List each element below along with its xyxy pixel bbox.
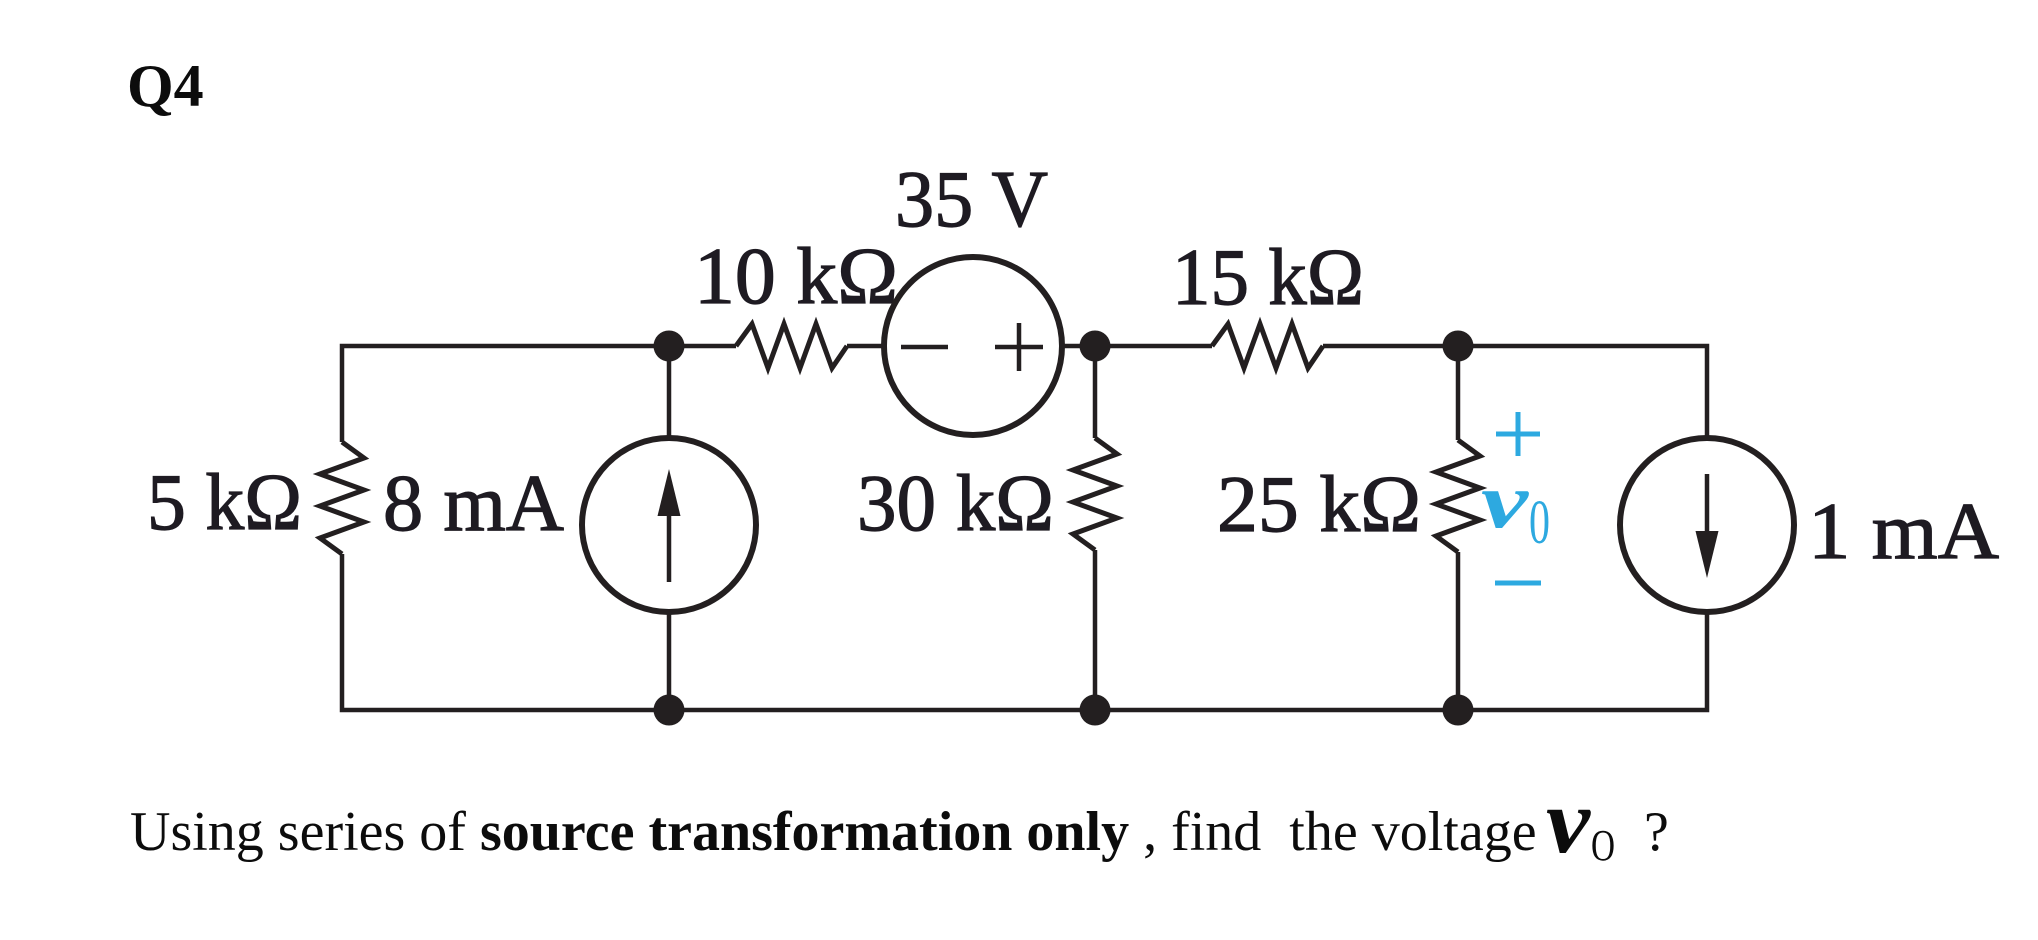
- svg-text:O: O: [1591, 821, 1615, 870]
- resistor R2 15 kOhm: [1212, 324, 1323, 368]
- wire V1 to R2: [1062, 344, 1212, 349]
- svg-text:0: 0: [1529, 489, 1550, 557]
- I1 arrow up: [667, 510, 672, 582]
- svg-text:Using series of source transfo: Using series of source transformation on…: [130, 801, 1537, 863]
- svg-text:10 kΩ: 10 kΩ: [694, 233, 898, 321]
- svg-text:25 kΩ: 25 kΩ: [1217, 461, 1421, 549]
- wire R5 to bottom: [1456, 552, 1461, 710]
- node E bottom-middle junction dot: [1080, 695, 1111, 726]
- wire node A down to I1: [667, 346, 672, 438]
- wire R4 to bottom: [1093, 550, 1098, 710]
- svg-text:15 kΩ: 15 kΩ: [1172, 234, 1364, 322]
- resistor R3 5 kOhm: [320, 442, 364, 554]
- current source I2 1 mA circle: [1620, 438, 1794, 612]
- node F bottom-right junction dot: [1443, 695, 1474, 726]
- resistor R5 25 kOhm: [1436, 440, 1480, 552]
- svg-text:v: v: [1481, 457, 1530, 544]
- resistor R1 10 kOhm: [736, 324, 847, 368]
- current source I1 8 mA circle: [582, 438, 756, 612]
- label v0 plus sign (cyan): [1496, 412, 1540, 456]
- svg-text:30 kΩ: 30 kΩ: [857, 460, 1054, 548]
- label v0 minus sign (cyan): [1495, 581, 1541, 586]
- voltage source V1 35 V circle: [884, 257, 1062, 435]
- I2 arrow down: [1705, 474, 1710, 538]
- node A top-left junction dot: [654, 331, 685, 362]
- svg-text:1 mA: 1 mA: [1808, 488, 1999, 576]
- node D bottom-left junction dot: [654, 695, 685, 726]
- node C top-right junction dot: [1443, 331, 1474, 362]
- svg-text:v: v: [1546, 770, 1591, 872]
- svg-text:5 kΩ: 5 kΩ: [147, 459, 302, 547]
- wire I1 to bottom: [667, 612, 672, 710]
- wire R1 to V1: [847, 344, 884, 349]
- V1 plus sign: [995, 323, 1043, 371]
- resistor R4 30 kOhm: [1073, 438, 1117, 550]
- node B top-middle junction dot: [1080, 331, 1111, 362]
- wire bottom: [342, 554, 1707, 710]
- svg-text:?: ?: [1644, 801, 1669, 863]
- svg-text:8 mA: 8 mA: [383, 460, 564, 548]
- wire node B down to R4: [1093, 346, 1098, 438]
- wire node C down to R5: [1456, 346, 1461, 440]
- wire top left segment: [342, 346, 736, 442]
- V1 minus sign: [901, 345, 948, 350]
- svg-text:35 V: 35 V: [895, 156, 1048, 244]
- wire R2 to top-right corner: [1323, 346, 1707, 438]
- svg-text:Q4: Q4: [127, 53, 204, 119]
